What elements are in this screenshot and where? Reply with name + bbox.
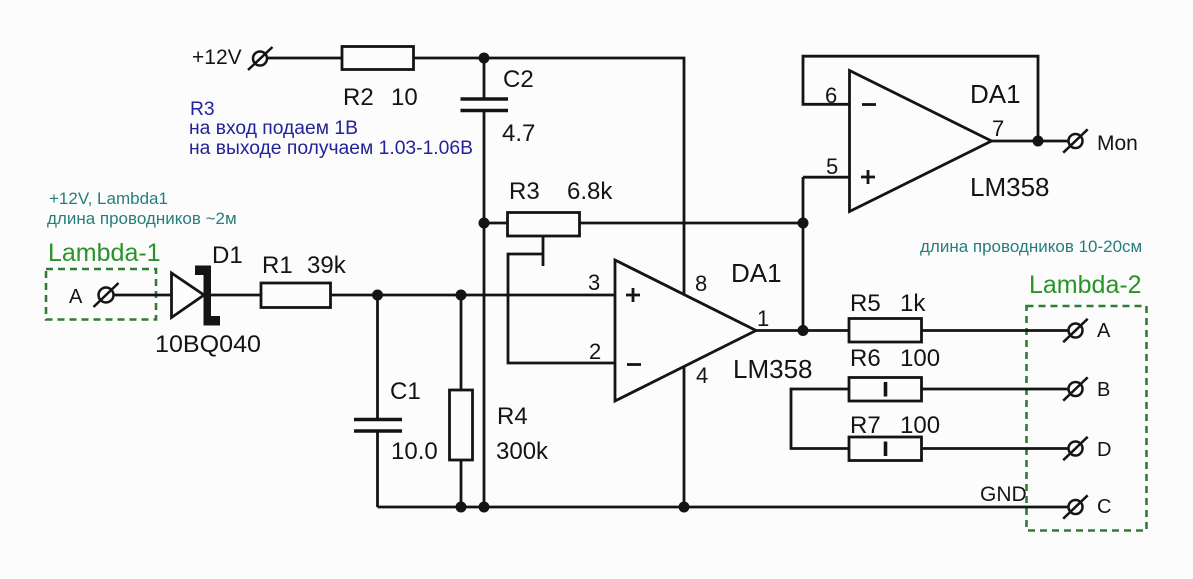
junction node op1 output [798,325,809,336]
svg-text:+12V: +12V [192,46,242,69]
Lambda-1 dashed box [46,269,156,320]
resistor R2 [342,47,414,70]
wire op1 output [756,329,849,332]
junction node rail R4 [456,502,467,513]
svg-text:3: 3 [588,270,600,295]
plus input symbol U1 [626,288,640,302]
Lambda-2 dashed box [1027,306,1147,531]
resistor R6 (1W) [849,378,922,402]
wire R3 right to feedback node [580,222,804,225]
resistor R5 [849,319,922,343]
junction node C1 top [372,290,383,301]
svg-text:DA1: DA1 [731,258,782,288]
resistor R4 [450,295,473,507]
svg-text:10: 10 [391,84,418,111]
op-amp U2 DA1 (pins 6,5,7) [850,71,992,212]
wire +12V terminal to R2 [267,57,342,60]
svg-text:D1: D1 [212,242,243,269]
wire R5 to terminal A [922,329,1069,332]
junction node rail pin4 [679,502,690,513]
capacitor C1 [354,295,402,507]
svg-text:длина проводников 10-20см: длина проводников 10-20см [920,237,1142,256]
wire D1 to R1 [211,294,261,297]
diode D1 (Schottky 10BQ040) [172,266,221,326]
svg-text:LM358: LM358 [733,354,813,384]
wire pin 4 to ground rail [683,367,686,507]
svg-text:A: A [1097,320,1111,342]
svg-text:длина проводников ~2м: длина проводников ~2м [47,209,237,228]
svg-text:R7: R7 [850,412,881,439]
svg-text:5: 5 [826,154,838,179]
svg-text:B: B [1097,379,1110,401]
wire R2 to node C2 [414,57,485,60]
svg-text:1: 1 [757,306,769,331]
svg-text:R3: R3 [509,178,540,205]
svg-text:8: 8 [695,271,707,296]
svg-text:R2: R2 [343,84,374,111]
svg-text:Mon: Mon [1097,132,1138,155]
svg-text:C: C [1097,496,1111,518]
svg-text:Lambda-2: Lambda-2 [1029,271,1142,299]
svg-text:R4: R4 [497,403,528,430]
svg-text:10.0: 10.0 [391,438,438,465]
wire feedback vertical x803 [802,177,805,331]
svg-text:R6: R6 [850,345,881,372]
svg-text:4.7: 4.7 [502,120,535,147]
junction node rail C2 net [479,502,490,513]
wire Lambda-1 to D1 [114,294,172,297]
plus input symbol U2 [861,170,875,184]
svg-text:6.8k: 6.8k [567,178,613,205]
svg-text:C2: C2 [503,66,534,93]
terminal C Lambda-2 [1063,495,1088,518]
terminal B Lambda-2 [1063,377,1088,400]
junction node R4 top [456,290,467,301]
svg-text:39k: 39k [307,252,347,279]
wire R6 to terminal B [922,388,1069,391]
svg-text:на выходе получаем 1.03-1.06В: на выходе получаем 1.03-1.06В [189,138,473,159]
terminal D Lambda-2 [1063,437,1088,460]
minus input symbol U1 [627,363,641,366]
junction node at C2 top [479,53,490,64]
svg-text:R5: R5 [850,290,881,317]
wire op2 output to Mon [992,140,1069,143]
minus input symbol U2 [862,103,876,106]
svg-text:GND: GND [980,483,1027,506]
op-amp U1 DA1 (pins 3,2,1,8,4) [615,260,756,401]
wire C2 bottom vertical net [483,112,486,507]
svg-text:300k: 300k [496,438,549,465]
ground rail [378,506,1069,509]
junction node R3 right / pin5 [798,218,809,229]
svg-text:100: 100 [900,345,940,372]
svg-text:6: 6 [825,83,837,108]
svg-text:DA1: DA1 [970,79,1021,109]
svg-text:LM358: LM358 [970,172,1050,202]
terminal Mon [1063,129,1088,152]
svg-text:R1: R1 [262,252,293,279]
terminal A Lambda-1 [94,283,119,307]
svg-text:7: 7 [992,116,1004,141]
potentiometer R3 [484,213,580,267]
junction node op2 output [1033,136,1044,147]
resistor R1 [261,283,331,308]
wire R7 to terminal D [922,447,1069,450]
wire pin 5 [803,176,850,179]
wire R6-R7 left link [791,389,849,449]
svg-text:A: A [69,286,83,308]
wire R1 to op-amp pin 3 [331,294,616,297]
svg-text:10BQ040: 10BQ040 [155,331,261,358]
capacitor C2 [461,58,509,111]
svg-text:4: 4 [696,363,708,388]
wire op2 feedback loop [803,56,1038,141]
svg-text:1k: 1k [900,290,926,317]
wire R3 wiper to pin 2 [508,254,615,363]
svg-text:+12V, Lambda1: +12V, Lambda1 [49,189,168,208]
svg-text:на вход подаем 1В: на вход подаем 1В [189,118,358,139]
wire top rail to pin 8 [484,58,684,294]
svg-text:Lambda-1: Lambda-1 [48,239,161,267]
terminal +12V [248,47,273,70]
svg-text:C1: C1 [390,378,421,405]
svg-text:R3: R3 [190,99,215,120]
svg-text:2: 2 [589,339,601,364]
svg-text:D: D [1097,439,1111,461]
junction node R3 left [479,218,490,229]
svg-text:100: 100 [900,412,940,439]
terminal A Lambda-2 [1063,319,1088,342]
resistor R7 (1W) [849,437,922,461]
